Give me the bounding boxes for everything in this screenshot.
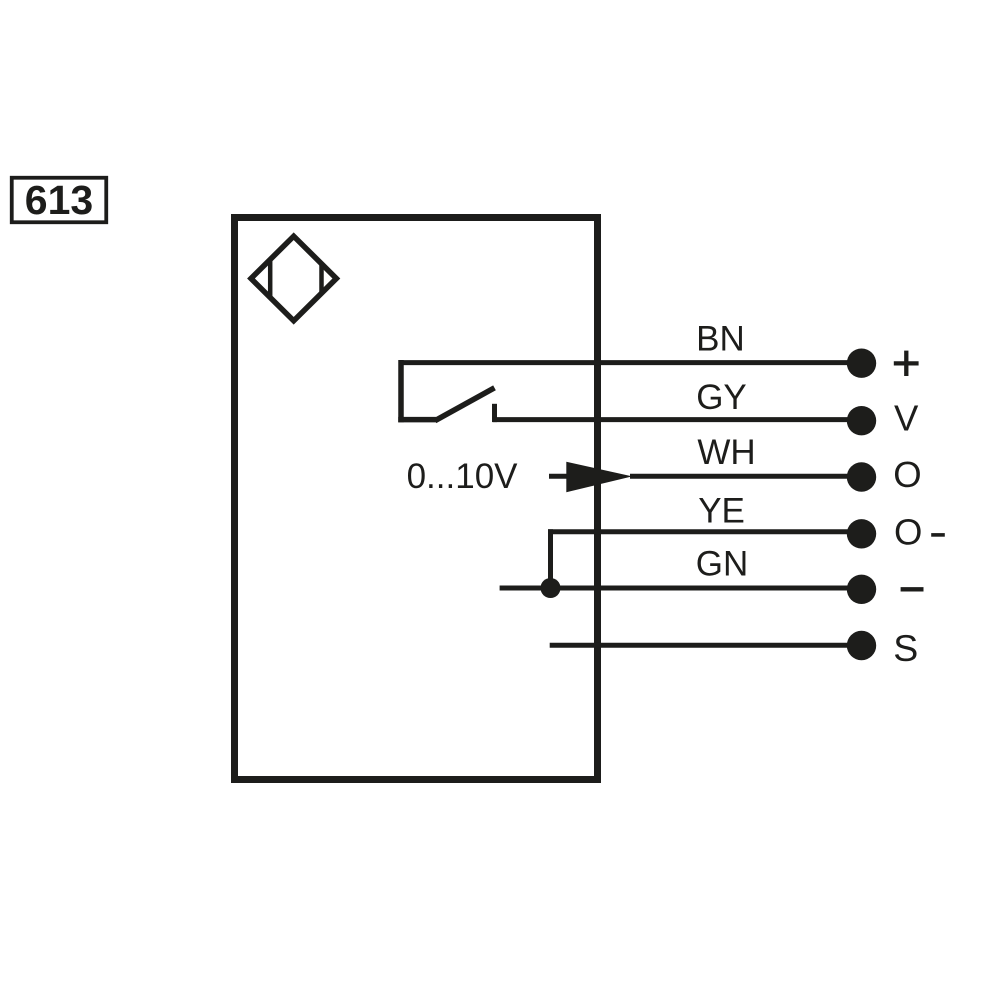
arrow head — [566, 462, 632, 493]
terminal dot V — [847, 406, 876, 435]
label box 613 — [12, 177, 107, 223]
terminal dot O — [847, 462, 876, 491]
wire S — [550, 643, 862, 648]
svg-text:S: S — [893, 627, 918, 669]
svg-text:BN: BN — [696, 319, 745, 358]
wire GY — [493, 417, 862, 422]
wire WH — [630, 474, 862, 479]
svg-text:613: 613 — [25, 177, 93, 223]
terminal dot O- — [847, 519, 876, 548]
svg-text:GN: GN — [696, 545, 749, 584]
svg-text:WH: WH — [697, 433, 755, 472]
wire GN — [500, 586, 862, 591]
wire: YE drop to junction — [548, 529, 553, 588]
wire: switch bottom lead — [398, 417, 436, 423]
svg-text:YE: YE — [698, 492, 745, 531]
terminal dot S — [847, 631, 876, 660]
switch contact — [398, 360, 494, 422]
svg-text:GY: GY — [696, 378, 747, 417]
svg-text:0...10V: 0...10V — [407, 457, 519, 496]
sensor body rectangle — [235, 218, 598, 780]
svg-text:V: V — [894, 398, 919, 439]
switch blade — [435, 388, 495, 421]
inductive sensor symbol (diamond) — [251, 236, 336, 321]
junction dot — [541, 578, 561, 598]
wire BN — [401, 360, 862, 365]
switch fixed contact tick — [492, 404, 497, 422]
svg-text:O: O — [893, 454, 921, 495]
terminal dot + — [847, 349, 876, 378]
wire YE — [548, 529, 862, 534]
terminal dot - — [847, 575, 876, 604]
wire: analog output lead — [549, 474, 572, 479]
terminal label - — [901, 587, 924, 591]
svg-text:O: O — [894, 511, 922, 552]
terminal label + — [894, 351, 919, 376]
wire: left vertical from BN wire — [398, 360, 404, 422]
